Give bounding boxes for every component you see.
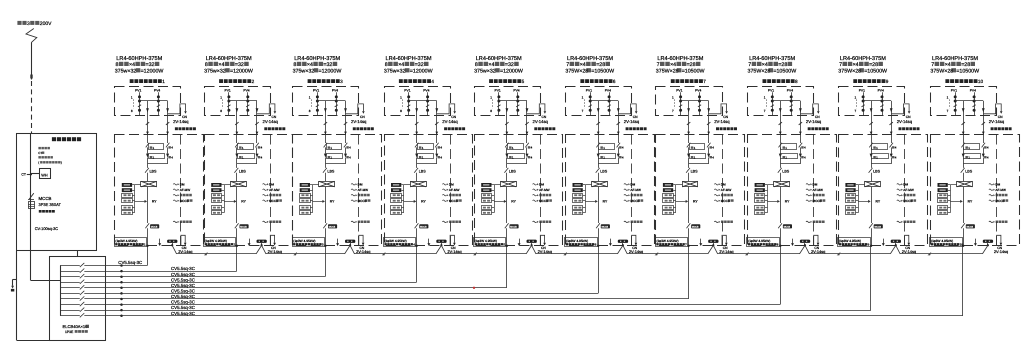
wire: feeder CV5.5sq-3C from PCS5 to ELCB5 <box>122 287 507 289</box>
label box パワーコンディショナ9 <box>838 238 871 247</box>
svg-text:375w×32: 375w×32 <box>293 68 315 74</box>
annotation line (PCS8) <box>806 189 810 190</box>
disconnector row 断1/断4 (PCS1) <box>146 143 150 148</box>
power conditioner box PCS6 <box>566 135 655 246</box>
annotation line (PCS5) <box>533 184 537 185</box>
wire: string tie (array 4) <box>409 100 437 102</box>
svg-text:LR4-60HPH-375M: LR4-60HPH-375M <box>567 56 613 62</box>
svg-text:LR4-60HPH-375M: LR4-60HPH-375M <box>476 56 522 62</box>
svg-text:MCCB: MCCB <box>329 226 336 229</box>
PV array box 太陽電池アレイ8 <box>748 87 814 116</box>
inverter unit (PCS6) <box>592 182 608 187</box>
svg-text:=32: =32 <box>146 62 155 68</box>
annotation line (PCS7) <box>714 195 718 196</box>
dashed divider (PCS8) <box>813 135 815 246</box>
svg-text:=32: =32 <box>505 62 514 68</box>
array label 太陽電池アレイ1 <box>130 79 134 83</box>
node: feeder 2 junction dot <box>120 270 123 273</box>
connector CN bump (PCS8) <box>814 235 818 246</box>
breaker MCCB output (PCS5) <box>505 223 509 228</box>
wire: panel left enclosure drop <box>16 251 18 341</box>
svg-text:=12000W: =12000W <box>230 68 253 74</box>
svg-text:×4: ×4 <box>218 62 224 68</box>
annotation line (PCS3) <box>351 189 355 190</box>
svg-text:DM: DM <box>630 182 635 186</box>
wire: terminal feed with arrow (PCS3) <box>313 201 323 203</box>
wire: inverter output (PCS10) <box>963 187 965 223</box>
annotation line (PCS4) <box>442 189 446 190</box>
connector CN bump (PCS9) <box>905 235 909 246</box>
svg-text:PV1: PV1 <box>951 88 957 92</box>
svg-text:MCCB: MCCB <box>151 226 158 229</box>
switch LBS (PCS10) <box>963 164 965 168</box>
fuse row 断 (PCS7) <box>687 154 690 158</box>
node: feeder 7 junction dot <box>120 298 123 301</box>
PV array box 太陽電池アレイ7 <box>656 87 723 116</box>
svg-text:φ3W 4.95kW): φ3W 4.95kW) <box>842 239 862 243</box>
svg-text:=28: =28 <box>596 62 605 68</box>
dashed divider (PCS9) <box>904 135 906 246</box>
breaker ELCB7 row <box>60 298 80 300</box>
wire: strings into PCS10 <box>963 135 965 144</box>
PV array box 太陽電池アレイ1 <box>115 87 181 116</box>
wire: string return PV4 (array 10) <box>983 101 985 135</box>
annotation line (PCS7) <box>714 184 718 185</box>
annotation line (PCS2) <box>263 195 267 196</box>
svg-text:CV5.5sq-3C: CV5.5sq-3C <box>171 300 195 305</box>
connector block (PCS6) <box>618 240 628 243</box>
string input terminals (PCS3) <box>300 183 310 187</box>
svg-text:WH: WH <box>41 173 48 177</box>
svg-text:×4: ×4 <box>580 62 586 68</box>
dashed divider (PCS3) <box>358 135 360 246</box>
svg-text:375W×28: 375W×28 <box>930 68 953 74</box>
svg-text:2V-14sq: 2V-14sq <box>994 249 1008 254</box>
wire: string join (PCS4) <box>416 147 418 153</box>
wire: 2V-14sq chain tent up (PCS6) <box>617 245 623 254</box>
svg-text:φ3W 4.95kW): φ3W 4.95kW) <box>296 239 316 243</box>
pv string PV4 modules (array 5) <box>517 92 519 116</box>
wire: string return PV1 (array 9) <box>871 101 873 135</box>
panel title 引込開閉器盤 <box>52 137 56 141</box>
connector CN extension cable stub (array 8) <box>800 104 818 114</box>
connector CN extension cable stub (array 2) <box>257 104 275 114</box>
connector CN bump (PCS7) <box>722 235 726 246</box>
wire: strings into PCS3 <box>325 135 327 144</box>
wire: string tie (array 10) <box>955 100 983 102</box>
disconnector row 断1/断4 (PCS4) <box>415 143 419 148</box>
svg-text:8: 8 <box>220 109 222 113</box>
svg-text:7: 7 <box>566 62 569 68</box>
wire: string return PV1 (array 2) <box>236 101 238 135</box>
connector CN extension cable stub (array 3) <box>346 104 364 114</box>
wire: feeder CV5.5sq-3C from PCS9 to ELCB9 <box>122 310 871 312</box>
node: PCS10 output junction <box>962 245 964 247</box>
AC output arrow (PCS4) <box>428 239 430 244</box>
node: PCS7 output junction <box>687 245 689 247</box>
label box パワーコンディショナ1 <box>115 238 147 247</box>
node: PCS3 output junction <box>324 245 326 247</box>
wire: feeder CV5.5sq-3C from PCS3 to ELCB3 <box>122 276 326 278</box>
svg-text:φ3W 4.95kW): φ3W 4.95kW) <box>387 239 407 243</box>
dashed divider (PCS5) <box>540 135 542 246</box>
annotation line (PCS8) <box>806 221 810 222</box>
svg-text:8: 8 <box>116 62 119 68</box>
svg-text:AF·MW: AF·MW <box>995 188 1006 192</box>
connector CN bump (PCS6) <box>632 235 636 246</box>
svg-text:=28: =28 <box>687 62 696 68</box>
wire: panel output to ELCB bus <box>31 280 60 282</box>
wire: terminal bus (PCS10) <box>950 185 952 213</box>
svg-text:MCCB: MCCB <box>875 226 882 229</box>
wire: strings into PCS2 <box>236 135 238 144</box>
wire: string return PV1 (array 1) <box>147 101 149 135</box>
wire: panel output down <box>30 251 32 281</box>
annotation line (PCS4) <box>442 184 446 185</box>
wire: string return PV4 (array 8) <box>800 101 802 135</box>
wire: strings into PCS6 <box>598 135 600 144</box>
wire: inverter output (PCS8) <box>780 187 782 223</box>
svg-text:PV4: PV4 <box>423 88 429 92</box>
svg-text:6: 6 <box>613 79 616 84</box>
svg-text:LR4-60HPH-375M: LR4-60HPH-375M <box>116 56 162 62</box>
chain arrow mark 4 <box>473 252 477 256</box>
wire: terminal bus (PCS5) <box>494 185 496 213</box>
svg-text:LBS: LBS <box>782 169 790 173</box>
pv string PV1 modules (array 5) <box>498 92 500 116</box>
svg-text:AF·MW: AF·MW <box>813 188 824 192</box>
svg-text:RY: RY <box>876 200 881 204</box>
wire: terminal bus (PCS3) <box>312 185 314 213</box>
svg-text:AF·MW: AF·MW <box>269 188 280 192</box>
svg-text:375w×32: 375w×32 <box>115 68 137 74</box>
svg-text:8: 8 <box>131 109 133 113</box>
svg-text:): ) <box>61 161 62 165</box>
svg-text:2V-14sq: 2V-14sq <box>806 119 822 124</box>
switch LBS (PCS5) <box>506 164 508 168</box>
annotation line (PCS7) <box>714 200 718 201</box>
svg-text:=10500W: =10500W <box>682 68 705 74</box>
breaker ELCB6 row <box>60 293 80 295</box>
svg-text:MCCB: MCCB <box>967 226 974 229</box>
array label 太陽電池アレイ7 <box>671 79 675 83</box>
breaker MCCB output (PCS7) <box>687 223 691 228</box>
svg-text:375W×28: 375W×28 <box>838 68 861 74</box>
annotation line (PCS10) <box>989 184 993 185</box>
svg-text:10: 10 <box>978 79 984 84</box>
svg-text:1: 1 <box>582 96 584 100</box>
pv string PV4 modules (array 1) <box>158 92 160 116</box>
svg-text:LR4-60HPH-375M: LR4-60HPH-375M <box>932 56 978 62</box>
wire: inverter output (PCS2) <box>236 187 238 223</box>
label 延長ケーブル (array 10) <box>991 127 994 130</box>
pv string PV1 modules (array 10) <box>955 92 957 116</box>
svg-text:RY: RY <box>241 200 246 204</box>
svg-text:LR4-60HPH-375M: LR4-60HPH-375M <box>657 56 703 62</box>
label 延長ケーブル (array 5) <box>534 127 537 130</box>
junction tick on service line <box>30 75 32 79</box>
svg-text:PV4: PV4 <box>243 88 249 92</box>
svg-text:MCCB: MCCB <box>692 226 699 229</box>
svg-text:DM: DM <box>449 182 454 186</box>
label 延長ケーブル (array 3) <box>353 127 356 130</box>
PV array box 太陽電池アレイ2 <box>205 87 271 116</box>
svg-text:2: 2 <box>252 79 255 84</box>
wire: feeder CV5.5sq-3C from PCS10 to ELCB10 <box>122 315 964 317</box>
wire: string return PV4 (array 9) <box>891 101 893 135</box>
array label 太陽電池アレイ6 <box>580 79 584 83</box>
breaker MCCB output (PCS3) <box>323 223 327 228</box>
svg-text:1: 1 <box>220 96 222 100</box>
svg-text:7: 7 <box>703 79 706 84</box>
svg-text:LBS: LBS <box>150 169 158 173</box>
wire: string return PV1 (array 10) <box>963 101 965 135</box>
node: feeder 8 junction dot <box>120 303 123 306</box>
breaker ELCB4 row <box>60 282 80 284</box>
svg-text:PV4: PV4 <box>970 88 976 92</box>
wire: bottom earth run <box>17 340 106 342</box>
wire: string tie (array 6) <box>590 100 618 102</box>
connector CN bump (PCS2) <box>270 235 274 246</box>
wire: string tie (array 1) <box>140 100 168 102</box>
label 延長ケーブル (array 9) <box>899 127 902 130</box>
wire: 2V-14sq chain run 7-8 <box>718 253 800 255</box>
wire: string join (PCS2) <box>236 147 238 153</box>
annotation line (PCS6) <box>624 184 628 185</box>
svg-text:RY: RY <box>421 200 426 204</box>
wire: 2V-14sq chain run 9-10 <box>900 253 982 255</box>
wire: terminal feed with arrow (PCS2) <box>224 201 234 203</box>
svg-text:=28: =28 <box>778 62 787 68</box>
disconnector row 断1/断4 (PCS7) <box>687 143 691 148</box>
svg-text:×4: ×4 <box>129 62 135 68</box>
svg-text:DM: DM <box>903 182 908 186</box>
node: feeder 3 junction dot <box>120 275 123 278</box>
pv string PV1 modules (array 6) <box>590 92 592 116</box>
svg-text:7: 7 <box>672 109 674 113</box>
svg-text:MCCB: MCCB <box>510 226 517 229</box>
svg-text:=32: =32 <box>235 62 244 68</box>
label 延長ケーブル (array 1) <box>175 127 178 130</box>
wire: terminal bus (PCS6) <box>585 185 587 213</box>
svg-text:RY: RY <box>968 200 973 204</box>
power conditioner box PCS7 <box>656 135 745 246</box>
annotation line (PCS2) <box>263 184 267 185</box>
string input terminals (PCS10) <box>938 183 948 187</box>
annotation line (PCS6) <box>624 200 628 201</box>
wire: string return PV1 (array 5) <box>506 101 508 135</box>
svg-text:φ3W 4.95kW): φ3W 4.95kW) <box>934 239 954 243</box>
fuse row 断 (PCS3) <box>324 154 327 158</box>
power conditioner box PCS10 <box>931 135 1020 246</box>
wire: string tie (array 3) <box>317 100 345 102</box>
wire: inverter output (PCS5) <box>506 187 508 223</box>
switch LBS (PCS6) <box>598 164 600 168</box>
panel box 引込開閉器盤 <box>17 134 97 251</box>
svg-text:MCCB: MCCB <box>602 226 609 229</box>
annotation line (PCS2) <box>263 221 267 222</box>
fuse row 断 (PCS2) <box>235 154 238 158</box>
svg-text:φ3W 4.95kW): φ3W 4.95kW) <box>118 239 138 243</box>
switch LBS (PCS1) <box>147 164 149 168</box>
power conditioner box PCS2 <box>205 135 293 246</box>
inverter unit (PCS2) <box>231 182 247 187</box>
array label 太陽電池アレイ10 <box>945 79 949 83</box>
connector block (PCS10) <box>983 240 993 243</box>
dashed divider (PCS2) <box>270 135 272 246</box>
svg-text:=28: =28 <box>961 62 970 68</box>
svg-text:ELCB40A×10: ELCB40A×10 <box>63 324 89 329</box>
svg-text:CV5.5sq-3C: CV5.5sq-3C <box>171 266 195 271</box>
annotation line (PCS8) <box>806 200 810 201</box>
disconnector row 断1/断4 (PCS3) <box>324 143 328 148</box>
annotation line (PCS1) <box>173 221 177 222</box>
svg-text:AF·MW: AF·MW <box>358 188 369 192</box>
wire: service line solid segment <box>31 42 33 79</box>
annotation line (PCS5) <box>533 189 537 190</box>
annotation line (PCS3) <box>351 184 355 185</box>
array label 太陽電池アレイ9 <box>853 79 857 83</box>
svg-text:375w×32: 375w×32 <box>384 68 406 74</box>
wire: feeder CV5.5sq-3C from PCS7 to ELCB7 <box>122 298 689 300</box>
string input terminals (PCS1) <box>122 183 132 187</box>
annotation line (PCS9) <box>897 200 901 201</box>
annotation line (PCS3) <box>351 221 355 222</box>
wire: service line dashed segment to panel <box>31 81 33 134</box>
dashed divider (PCS6) <box>631 135 633 246</box>
chain arrow mark 7 <box>745 252 749 256</box>
label box パワーコンディショナ8 <box>747 238 780 247</box>
wire: strings into PCS4 <box>416 135 418 144</box>
annotation line (PCS7) <box>714 221 718 222</box>
node: feeder 9 junction dot <box>120 309 123 312</box>
connector CN extension cable stub (array 10) <box>983 104 1001 114</box>
node: PCS8 output junction <box>779 245 781 247</box>
svg-text:2V-14sq: 2V-14sq <box>989 119 1005 124</box>
wire: string return PV4 (array 7) <box>708 101 710 135</box>
annotation line (PCS4) <box>442 221 446 222</box>
wire: string return PV4 (array 6) <box>618 101 620 135</box>
array label 太陽電池アレイ2 <box>219 79 223 83</box>
svg-text:=32: =32 <box>415 62 424 68</box>
connector block (PCS8) <box>800 240 810 243</box>
svg-text:LR4-60HPH-375M: LR4-60HPH-375M <box>840 56 886 62</box>
chain arrow mark 6 <box>655 252 659 256</box>
connector block (PCS9) <box>891 240 901 243</box>
node: PCS4 output junction <box>416 245 418 247</box>
svg-text:375w×32: 375w×32 <box>204 68 226 74</box>
svg-text:2V-14sq: 2V-14sq <box>442 119 458 124</box>
dashed divider (PCS4) <box>450 135 452 246</box>
array label 太陽電池アレイ5 <box>489 79 493 83</box>
wire: strings into PCS8 <box>780 135 782 144</box>
wire: strings into PCS1 <box>147 135 149 144</box>
svg-text:×4: ×4 <box>853 62 859 68</box>
svg-text:PV1: PV1 <box>313 88 319 92</box>
wire: string return PV4 (array 5) <box>526 101 528 135</box>
svg-text:CV5.5sq-3C: CV5.5sq-3C <box>171 289 195 294</box>
svg-text:DM: DM <box>995 182 1000 186</box>
wire: string return PV4 (array 2) <box>256 101 258 135</box>
node: PCS6 output junction <box>597 245 599 247</box>
wire: string join (PCS9) <box>871 147 873 153</box>
wire: inverter output (PCS4) <box>416 187 418 223</box>
pv string PV4 modules (array 8) <box>791 92 793 116</box>
service drop zigzag symbol <box>26 29 37 43</box>
svg-text:8: 8 <box>309 109 311 113</box>
label box パワーコンディショナ3 <box>293 238 325 247</box>
wire: feeder CV5.5sq-3C from PCS1 to ELCB1 <box>122 265 148 267</box>
annotation line (PCS6) <box>624 189 628 190</box>
svg-text:×4: ×4 <box>488 62 494 68</box>
wire: terminal bus (PCS7) <box>675 185 677 213</box>
svg-text:×4: ×4 <box>670 62 676 68</box>
label box パワーコンディショナ4 <box>384 238 416 247</box>
connector block (PCS2) <box>257 240 267 243</box>
node: feeder 1 junction dot <box>120 264 123 267</box>
svg-text:LR4-60HPH-375M: LR4-60HPH-375M <box>294 56 340 62</box>
svg-text:CV-100sq-3C: CV-100sq-3C <box>35 226 59 231</box>
annotation line (PCS10) <box>989 200 993 201</box>
pv string PV1 modules (array 2) <box>228 92 230 116</box>
inverter unit (PCS5) <box>501 182 517 187</box>
svg-text:1P3E: 1P3E <box>65 330 74 334</box>
node: feeder 10 junction dot <box>120 314 123 317</box>
label 延長ケーブル (array 2) <box>264 127 267 130</box>
svg-text:375W×28: 375W×28 <box>656 68 679 74</box>
svg-text:PV4: PV4 <box>878 88 884 92</box>
wire: panel to ELCB box link <box>77 251 79 257</box>
AC output arrow (PCS2) <box>249 239 251 244</box>
breaker MCCB output (PCS8) <box>778 223 782 228</box>
connector CN extension cable stub (array 7) <box>709 104 727 114</box>
node: PCS1 output junction <box>146 245 148 247</box>
breaker MCCB output (PCS6) <box>596 223 600 228</box>
pv string PV1 modules (array 7) <box>680 92 682 116</box>
power conditioner box PCS5 <box>475 135 563 246</box>
svg-text:LR4-60HPH-375M: LR4-60HPH-375M <box>206 56 252 62</box>
annotation line (PCS6) <box>624 221 628 222</box>
svg-text:AF·MW: AF·MW <box>630 188 641 192</box>
svg-text:AF·MW: AF·MW <box>449 188 460 192</box>
svg-text:3P3E 350AT: 3P3E 350AT <box>39 202 62 207</box>
svg-text:7: 7 <box>839 62 842 68</box>
array label 太陽電池アレイ3 <box>308 79 312 83</box>
pv string PV4 modules (array 10) <box>974 92 976 116</box>
svg-text:LBS: LBS <box>509 169 517 173</box>
svg-text:LR4-60HPH-375M: LR4-60HPH-375M <box>386 56 432 62</box>
wire: 2V-14sq chain run 6-7 <box>627 253 708 255</box>
power conditioner box PCS1 <box>115 135 204 246</box>
svg-text:φ3W 4.95kW): φ3W 4.95kW) <box>751 239 771 243</box>
switch LBS (PCS7) <box>688 164 690 168</box>
disconnector row 断1/断4 (PCS9) <box>869 143 873 148</box>
svg-text:LBS: LBS <box>419 169 427 173</box>
node: feeder 5 junction dot <box>120 287 123 290</box>
svg-text:=10500W: =10500W <box>864 68 887 74</box>
svg-text:8: 8 <box>795 79 798 84</box>
label 漏電警報付 <box>39 210 42 213</box>
svg-text:MCCB: MCCB <box>420 226 427 229</box>
label 延長ケーブル (array 7) <box>716 127 719 130</box>
svg-text:MCCB: MCCB <box>784 226 791 229</box>
label 延長ケーブル (array 8) <box>808 127 811 130</box>
annotation line (PCS9) <box>897 184 901 185</box>
connector CN bump (PCS5) <box>540 235 544 246</box>
svg-text:DM: DM <box>813 182 818 186</box>
wire: string return PV1 (array 3) <box>325 101 327 135</box>
svg-text:375W×28: 375W×28 <box>748 68 771 74</box>
